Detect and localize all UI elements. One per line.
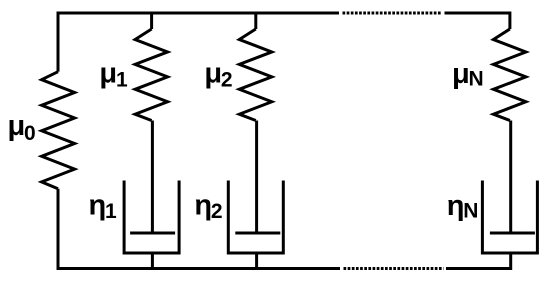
svg-text:1: 1	[105, 200, 117, 223]
spring mu0	[42, 72, 75, 189]
spring muN	[493, 29, 526, 121]
svg-text:1: 1	[116, 68, 128, 91]
svg-text:μ: μ	[8, 110, 26, 142]
wire bottom rail dotted segment	[344, 267, 444, 270]
wire stub eta1 cup to bottom rail	[151, 254, 154, 270]
wire stub top rail to spring mu1	[150, 13, 153, 29]
svg-text:η: η	[194, 190, 212, 222]
wire stub top rail to spring mu2	[254, 13, 257, 29]
wire stub eta2 cup to bottom rail	[255, 254, 258, 270]
dashpot eta2 piston plate	[235, 232, 280, 235]
svg-text:η: η	[89, 190, 107, 222]
spring mu2	[239, 29, 271, 121]
wire bottom rail solid right segment	[446, 267, 510, 270]
svg-text:2: 2	[221, 68, 233, 91]
dashpot eta1 cup	[124, 181, 179, 254]
wire stub top rail corner to spring muN	[508, 12, 511, 30]
dashpot eta2 cup	[228, 181, 283, 254]
svg-text:μ: μ	[204, 57, 222, 89]
label muN	[452, 58, 484, 90]
label eta1	[89, 190, 118, 223]
label etaN	[447, 190, 479, 223]
dashpot etaN piston plate	[490, 232, 535, 235]
svg-text:η: η	[447, 190, 465, 222]
svg-text:μ: μ	[452, 58, 470, 90]
wire piston rod eta2	[255, 121, 258, 234]
svg-text:2: 2	[211, 200, 223, 223]
wire top rail solid right segment	[445, 12, 510, 15]
dashpot etaN cup	[482, 181, 537, 254]
wire left branch upper (top rail to spring mu0)	[57, 12, 60, 72]
wire piston rod eta1	[151, 121, 154, 234]
label mu2	[204, 57, 232, 91]
wire bottom rail solid left segment	[57, 267, 341, 270]
wire piston rod etaN	[509, 121, 512, 234]
wire top rail solid left segment	[57, 12, 340, 15]
spring mu1	[135, 29, 168, 121]
svg-text:μ: μ	[99, 57, 117, 89]
dashpot eta1 piston plate	[130, 232, 175, 235]
label mu0	[8, 110, 36, 145]
label mu1	[99, 57, 128, 91]
svg-text:0: 0	[24, 122, 36, 145]
svg-text:N: N	[463, 200, 478, 223]
wire left branch lower (spring mu0 to bottom rail)	[57, 189, 60, 270]
wire top rail dotted segment	[343, 12, 442, 15]
wire stub etaN cup to bottom rail	[509, 254, 512, 270]
svg-text:N: N	[469, 68, 484, 91]
label eta2	[194, 190, 222, 224]
